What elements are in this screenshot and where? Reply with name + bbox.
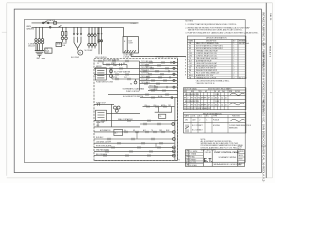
wire right rail [174,98,176,161]
svg-text:LS-1: LS-1 [96,125,99,127]
wire rung M7 [94,120,178,122]
control tap wires [98,27,100,54]
svg-text:2: 2 [234,70,235,72]
contact ticks M7 [102,120,150,122]
node footnote under table [196,80,231,85]
svg-text:T9 TO PL: T9 TO PL [149,86,156,88]
svg-text:TYPE: TYPE [198,91,202,93]
panel enclosure box [94,59,178,161]
node transformer label [28,43,36,48]
wire rail mid [110,104,112,127]
node index micro text [238,146,242,150]
svg-text:PILOT LIGHT RED-GREEN 120V: PILOT LIGHT RED-GREEN 120V [196,73,220,75]
relay description table [184,112,246,133]
wire terminal row t6 [140,76,178,78]
svg-text:OL2: OL2 [124,77,127,79]
breaker CB1 [54,22,57,25]
svg-text:T5 TO LS-1: T5 TO LS-1 [141,73,149,75]
svg-text:25: 25 [211,105,213,107]
svg-text:T6 TO LS-2: T6 TO LS-2 [141,76,149,78]
svg-text:COIL: COIL [192,116,196,118]
overload OL1 [88,44,91,47]
svg-text:M2: M2 [133,130,135,132]
svg-text:INDEX: INDEX [238,146,242,148]
svg-text:BELL: BELL [189,75,193,77]
node bottom rail tag [179,159,181,161]
svg-text:6: 6 [234,51,235,53]
svg-text:1: 1 [234,58,235,60]
contact ticks M2 [152,96,173,99]
svg-text:480-120V: 480-120V [28,46,36,48]
node aux labels [97,62,125,65]
coil lamp d [173,79,175,81]
wire field boundary dashes [185,56,187,76]
coil CRA [110,70,113,73]
wire bus B [32,26,124,28]
rung labels lower smudge [96,102,133,156]
svg-text:V: V [187,105,188,107]
svg-text:TYPE: TYPE [213,116,217,118]
approval signature scribble 2 [230,103,245,105]
inner drawing frame [24,20,245,163]
wire rung M13 [94,155,174,157]
node rung M4 labels [144,104,171,107]
svg-text:T4 TO OL2: T4 TO OL2 [141,70,149,72]
svg-text:LS2: LS2 [189,65,192,67]
node motor labels [62,44,92,59]
device box TD [158,114,165,118]
rung labels smudge [95,57,157,91]
node rung M11b label [96,141,111,143]
node motor header cells [184,90,240,93]
svg-text:* SEE SPEC SECTION 16: * SEE SPEC SECTION 16 [196,83,215,85]
svg-text:PUMP CONTROL PANEL: PUMP CONTROL PANEL [214,151,240,154]
svg-text:ENERGIZED: ENERGIZED [229,127,239,129]
wire rung left3 [94,73,140,75]
svg-text:LOW LEVEL CUTOFF: LOW LEVEL CUTOFF [96,141,111,143]
wire rung M10 [94,131,174,133]
wire terminal row t5 [140,73,178,75]
lamp Y1 [173,150,176,153]
disconnect switch S1 [42,22,44,24]
svg-text:T8 TO BELL: T8 TO BELL [141,82,150,84]
svg-text:METER: METER [96,66,102,68]
svg-text:PH: PH [214,91,216,93]
node schematic title [123,87,145,93]
svg-text:1: 1 [234,46,235,48]
node motor rows text [184,94,227,110]
wire sub rung aux2 [112,78,140,80]
node rung M10 labels [124,129,169,132]
label CPT [123,54,134,58]
svg-text:120V CONTROL: 120V CONTROL [95,57,107,59]
wire rung M1 [108,94,178,96]
svg-text:1: 1 [234,63,235,65]
svg-text:PLUG-IN: PLUG-IN [213,119,219,121]
wire sub rung aux [103,64,127,66]
svg-text:M1: M1 [189,46,191,48]
wire rung M2 [140,97,178,99]
node motor data heading [184,88,232,91]
main border frame [14,9,261,173]
svg-text:TB: TB [189,78,191,80]
svg-text:25 HP: 25 HP [215,94,219,96]
svg-text:3Ø60HZ: 3Ø60HZ [26,29,35,31]
svg-text:NOTES: NOTES [235,91,240,93]
lamp W1 [173,146,176,149]
svg-text:2: 2 [234,55,235,57]
svg-text:SHEET: SHEET [238,158,243,160]
node note 1 [185,23,258,35]
svg-text:HAER CAL,36-REDLA.V,2-: HAER CAL,36-REDLA.V,2- [262,146,266,182]
node relay header text [185,115,240,122]
approval signature scribble 1 [230,93,245,95]
svg-text:25: 25 [211,98,213,100]
svg-text:TERMINAL CONNECTIONS: TERMINAL CONNECTIONS [155,56,179,59]
contact ticks M1 [146,93,168,95]
svg-text:SCHEMATIC WIRING: SCHEMATIC WIRING [219,156,237,159]
wire aux2 riser [111,74,113,79]
contact ticks M4 [147,105,166,107]
svg-text:N0.2 PUMP: N0.2 PUMP [85,50,93,52]
title block strip divider [188,150,190,167]
svg-text:480: 480 [215,98,218,100]
svg-text:M2: M2 [189,48,191,50]
fuse F0 [58,25,61,27]
svg-text:D. PERRY: D. PERRY [189,159,196,161]
svg-text:SF: SF [208,98,210,100]
device table row texts [189,42,250,79]
node NOTE block [201,139,243,152]
svg-text:N0.1 PUMP: N0.1 PUMP [71,57,79,59]
contact aux2 [116,78,130,80]
svg-text:M2: M2 [130,83,132,85]
wire bottom trim edge [7,177,273,179]
node panel title [155,56,179,59]
delta transformer T2 [73,37,75,43]
coil CRB [110,75,113,78]
svg-text:HZ: HZ [218,91,220,93]
contact left b [110,67,122,69]
wire drop left [110,68,112,74]
contact left a [99,60,128,62]
wire right trim edge [271,3,273,178]
wire rung M8 [140,123,174,125]
svg-text:PH: PH [191,98,193,100]
node subtitle [214,163,242,166]
svg-text:480: 480 [215,105,218,107]
node relay row2 text [192,124,251,132]
SHEET EDGES [2,3,273,178]
svg-text:FUNCTION: FUNCTION [232,116,240,118]
svg-text:60: 60 [221,105,223,107]
wire rung M12b [94,150,174,152]
svg-text:REDLA V 2: REDLA V 2 [269,46,272,58]
relay contact symbol b [186,129,188,132]
svg-text:60: 60 [221,98,223,100]
svg-text:N0.2 PUMP MOTOR: N0.2 PUMP MOTOR [185,101,200,103]
svg-text:NOTES: NOTES [185,20,193,22]
contact aux [107,63,122,65]
wire connector v1 [97,121,99,127]
lamp R1 [172,123,175,126]
ground grid G1 [35,50,44,52]
node incoming service label [26,26,35,31]
device box TB1 [96,110,107,121]
wire connector v2 [136,132,138,139]
svg-text:REDLANDS VIC. SAN BDNO CO: REDLANDS VIC. SAN BDNO CO [262,100,266,146]
wire riser a [157,107,159,113]
svg-text:T2 TO OL1: T2 TO OL1 [141,64,149,66]
svg-text:PB: PB [189,70,191,72]
svg-text:MAY BE FOR THE EXISTING UNIT L: MAY BE FOR THE EXISTING UNIT LEVEL AND F… [188,28,243,31]
title block frame [185,150,244,167]
wire left margin tick [2,31,7,33]
wire aux risers [102,61,104,65]
svg-text:T1 TO M1 COIL: T1 TO M1 COIL [141,61,152,63]
contact ticks M12b [106,150,152,152]
wire left trim edge [6,3,8,176]
wire rung M11 [94,138,174,140]
motor M1 [78,50,83,55]
svg-text:MOTOR DATA: MOTOR DATA [184,88,197,91]
svg-text:CR2: CR2 [189,55,192,57]
wire terminal row t3 [140,67,178,69]
device box meter [95,68,106,80]
svg-text:E.T.: E.T. [204,158,213,164]
left column rules [185,153,203,164]
right strip rotated captions [262,12,266,182]
wire enclosure solid bottom edge [94,160,178,162]
node aux2 labels [113,77,132,85]
svg-text:DWG NO: DWG NO [205,152,212,154]
node bus end label [131,23,138,25]
wire sub rung M6 [155,111,172,113]
lamp A1 [173,138,176,141]
node strip micro text [186,150,191,167]
wire bus A [32,22,139,24]
svg-text:RELAY DESIGNATION: RELAY DESIGNATION [203,112,222,115]
label box F1 spare [56,43,62,47]
wire rung left2 [94,67,140,69]
svg-text:DEVICE DESIGNATION: DEVICE DESIGNATION [206,37,227,40]
title block divider right [237,150,239,167]
svg-text:1. CONTACT MAY BE REQUIRED AT: 1. CONTACT MAY BE REQUIRED AT EACH LEVEL… [185,23,237,26]
control transformer panel CPT [123,37,139,53]
svg-text:R. J. SMITH: R. J. SMITH [189,151,197,153]
wire rung L10 [148,90,178,92]
svg-text:SCHEMATIC DIAGRAM: SCHEMATIC DIAGRAM [123,87,145,90]
coil lamp a [173,61,175,63]
wire riser b [170,107,172,113]
svg-text:34: 34 [225,98,227,100]
svg-text:HP: HP [184,98,186,100]
node breaker label [48,19,56,22]
transformer T1 secondaries [35,44,37,51]
svg-text:HP: HP [205,91,207,93]
wire rung M4 [143,106,175,108]
wire enclosure solid right edge [177,59,179,161]
contact ticks M13 [104,154,150,156]
svg-text:25 HP: 25 HP [215,101,219,103]
svg-text:CB: CB [189,43,191,45]
svg-text:RUN: RUN [166,130,169,132]
motor table column dividers [187,88,228,110]
wire terminal rail [139,61,141,91]
svg-text:1: 1 [234,65,235,67]
coil lamp c [173,73,175,75]
svg-text:SS: SS [189,68,191,70]
wire rung M5 [107,112,141,114]
node rung M2 label [158,95,162,98]
relay coil cluster CR [114,106,117,109]
svg-text:HP: HP [184,105,186,107]
title block divider mid [211,150,213,167]
svg-text:1.5KVA: 1.5KVA [123,56,129,59]
svg-text:CR1: CR1 [168,105,171,107]
wire rung L9 [148,86,178,88]
svg-text:2: 2 [234,78,235,80]
coil lamp b [173,67,175,69]
wire rung M12 [94,146,174,148]
title block divider left [202,150,204,167]
svg-text:SURVEY: SURVEY [238,151,244,153]
svg-text:1: 1 [234,43,235,45]
lamp B1 [173,154,176,157]
starter group K1 [88,27,90,33]
node sheet monogram [204,152,213,164]
contact ticks M11 [108,138,154,140]
wire right strip outer line [265,3,267,178]
svg-text:LS1: LS1 [189,63,192,65]
svg-text:M1: M1 [123,63,125,65]
device box AL [114,129,123,135]
node main title [214,151,240,159]
svg-text:34: 34 [225,105,227,107]
contact ticks upper group [150,61,171,63]
svg-text:STOP: STOP [113,77,117,79]
wire gnd stub [42,57,45,59]
title center rule [212,161,237,163]
svg-text:CR1: CR1 [185,119,188,121]
contact ticks M8 [144,123,160,125]
contact ticks M11b [118,142,162,144]
right column rules [238,153,245,163]
svg-text:OF 9: OF 9 [238,165,241,167]
svg-text:1: 1 [234,48,235,50]
contact M3 [98,103,100,105]
wire ground tail [36,44,38,51]
svg-text:HZ: HZ [194,105,196,107]
svg-text:2: 2 [234,53,235,55]
label box panel [45,48,52,53]
node left column text [189,151,197,167]
svg-text:BELL SILENCE: BELL SILENCE [96,154,107,156]
wire connector v3 [155,143,157,147]
node margin pencil notes [269,13,272,94]
svg-text:(EXISTING UNITS FIELD VERIFY): (EXISTING UNITS FIELD VERIFY) [208,88,232,90]
sheet background [0,0,275,183]
svg-text:SF: SF [208,105,210,107]
svg-text:DESCRIPTION: DESCRIPTION [206,40,216,42]
lamp G1 [173,131,176,134]
svg-text:SQ. D. CO.: SQ. D. CO. [239,78,247,80]
node ground label [36,58,40,60]
contact ticks M10 [125,131,164,133]
contact ticks M12 [112,146,160,148]
transformer bank T1 primaries [35,27,37,38]
svg-text:CONT: CONT [128,43,133,45]
wire rung top [94,60,140,62]
device designation table [187,36,246,79]
coil lamp e [173,86,175,88]
node rung M labels [123,95,144,98]
svg-text:T3 TO M2 COIL: T3 TO M2 COIL [141,67,152,69]
wire control feed [130,53,132,57]
svg-text:N0. 7: N0. 7 [238,148,242,150]
node right column text [238,151,244,166]
wire rung M3 [94,103,114,105]
svg-text:V: V [187,98,188,100]
wire terminal row t7 [140,80,178,82]
node rung M12b label [96,149,109,152]
svg-text:4: 4 [234,73,235,75]
wire terminal row t1 [140,62,178,64]
svg-text:CR1: CR1 [189,53,192,55]
svg-text:N0.1 PUMP MOTOR: N0.1 PUMP MOTOR [185,94,200,96]
svg-text:PUMP CONTROL: PUMP CONTROL [126,91,140,93]
node NOTES heading [185,20,193,22]
feeder arrows A1 [73,27,75,35]
svg-text:PH: PH [191,105,193,107]
svg-text:CAL 36: CAL 36 [269,13,272,21]
relay contact symbol a [185,125,189,130]
svg-text:1: 1 [234,60,235,62]
svg-text:3. PUMP MOTOR(S) ARE NOT LABEL: 3. PUMP MOTOR(S) ARE NOT LABELED AND CON… [185,32,258,35]
wire strip tick bottom [261,145,266,147]
svg-text:CR2: CR2 [159,130,162,132]
svg-text:2: 2 [234,68,235,70]
wire rung M11b [94,142,174,144]
svg-text:TO MCC: TO MCC [131,23,138,25]
wire terminal row t2 [140,65,178,67]
svg-text:OL: OL [97,63,99,65]
wire terminal row t4 [140,70,178,72]
wire top trim edge [7,2,273,4]
svg-text:120V: 120V [45,52,48,54]
fused feeder F1 [62,27,64,31]
transformer T1 coils [35,39,37,41]
svg-text:CONT: CONT [62,43,67,45]
svg-text:HZ: HZ [194,98,196,100]
svg-text:OL: OL [189,51,191,53]
wire terminal row t8 [140,83,178,85]
svg-text:RUN N0.2: RUN N0.2 [96,137,103,139]
coil aux2 [134,81,137,84]
relay table column dividers [191,115,228,133]
svg-text:1: 1 [234,75,235,77]
svg-text:HOLDING: HOLDING [213,125,221,127]
svg-text:PL: PL [189,73,191,75]
svg-text:120V: 120V [192,119,196,121]
contact left c [116,73,128,75]
wire aux2 drop [135,79,137,81]
wire rung M9 [94,126,140,128]
panel drop wire [122,27,124,36]
motor data table [184,88,246,110]
wire strip tick top [261,43,266,45]
approval signature scribble 3 [231,119,245,121]
